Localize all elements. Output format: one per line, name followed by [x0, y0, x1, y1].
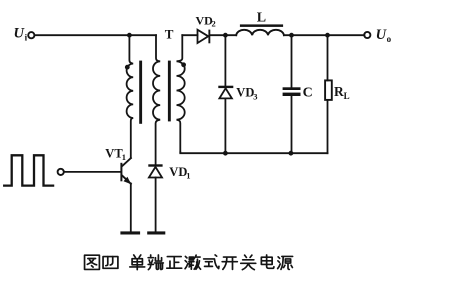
- transformer T reset winding: [153, 35, 160, 164]
- char 端: [148, 255, 163, 270]
- wire secondary top to VD2: [182, 34, 197, 36]
- capacitor C plates: [283, 87, 301, 96]
- node junction C bottom: [289, 151, 294, 156]
- char 式: [204, 255, 219, 269]
- secondary phase dot: [181, 62, 186, 67]
- char 正: [167, 257, 182, 269]
- wire inductor to output terminal: [284, 34, 365, 36]
- transformer core bar right: [168, 61, 171, 122]
- primary phase dot: [125, 65, 130, 70]
- resistor RL branch wire bottom: [327, 100, 329, 153]
- char 激: [185, 255, 201, 269]
- svg-text:3: 3: [253, 91, 257, 101]
- output terminal Uo: [364, 32, 370, 38]
- diode VD1: [148, 164, 162, 177]
- svg-text:1: 1: [186, 170, 190, 180]
- transformer T primary winding: [127, 35, 134, 158]
- inductor L winding: [236, 30, 284, 35]
- label VT1: [105, 147, 126, 163]
- svg-text:VT: VT: [105, 147, 123, 161]
- resistor RL branch wire top: [327, 35, 329, 80]
- ground VT1: [120, 231, 140, 234]
- node junction VD3 bottom: [223, 151, 228, 156]
- transistor VT1: [120, 158, 131, 231]
- wire VD3 branch vertical: [224, 35, 226, 86]
- node junction primary top: [127, 33, 132, 38]
- svg-text:VD: VD: [169, 165, 187, 179]
- char 关: [241, 255, 256, 269]
- transformer core bar left: [139, 61, 142, 124]
- capacitor C branch wire top: [291, 35, 293, 87]
- svg-text:L: L: [344, 91, 350, 101]
- svg-text:R: R: [334, 84, 344, 99]
- svg-text:2: 2: [212, 19, 216, 29]
- inductor L core bar: [240, 24, 283, 27]
- capacitor C branch wire bottom: [291, 96, 293, 153]
- svg-text:1: 1: [122, 152, 126, 162]
- svg-text:VD: VD: [236, 86, 254, 100]
- label RL: [334, 84, 350, 101]
- bottom rail wire: [180, 151, 327, 154]
- label VD2: [196, 13, 216, 28]
- resistor RL: [325, 80, 332, 100]
- wire VD2 to inductor: [210, 34, 236, 36]
- char 源: [278, 256, 293, 269]
- input terminal Ui: [28, 32, 34, 38]
- char 电: [261, 255, 274, 268]
- caption: 图四 单端正激式开关电源: [85, 255, 293, 270]
- label Ui: [14, 26, 28, 43]
- char 单: [130, 255, 145, 270]
- node junction VD3 top: [223, 33, 228, 38]
- input terminal base: [58, 169, 64, 175]
- node junction C top: [289, 33, 294, 38]
- wire VD1 to ground: [155, 178, 157, 232]
- label VD1: [169, 165, 190, 181]
- svg-text:C: C: [303, 85, 313, 100]
- wire top from Ui to reset winding top: [35, 34, 156, 36]
- char 开: [222, 257, 237, 269]
- diode VD2: [198, 30, 211, 44]
- pulse input waveform: [4, 155, 53, 185]
- label Uo: [376, 27, 392, 44]
- char 四: [103, 257, 118, 269]
- svg-text:o: o: [387, 34, 392, 44]
- label VD3: [236, 86, 257, 102]
- wire VD3 to bottom rail: [224, 98, 226, 153]
- transformer T secondary winding: [177, 35, 185, 152]
- wire base: [64, 171, 121, 173]
- diode VD3: [218, 86, 233, 99]
- svg-text:L: L: [257, 11, 266, 26]
- svg-text:T: T: [165, 27, 174, 42]
- char 图: [85, 255, 100, 269]
- ground VD1: [147, 231, 165, 234]
- node junction RL top: [325, 33, 330, 38]
